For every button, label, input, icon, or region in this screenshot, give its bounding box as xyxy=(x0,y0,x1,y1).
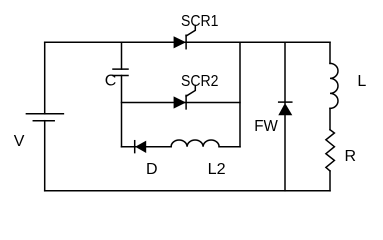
capacitor C xyxy=(113,69,128,75)
svg-text:SCR2: SCR2 xyxy=(181,73,219,90)
svg-text:R: R xyxy=(345,148,357,165)
svg-text:C: C xyxy=(105,73,117,90)
inductor L xyxy=(330,63,338,108)
SCR1 xyxy=(174,27,196,49)
diode FW xyxy=(278,102,292,115)
svg-text:V: V xyxy=(14,133,25,150)
wire right middle xyxy=(329,108,331,129)
wire inner right vertical xyxy=(239,42,241,147)
wire inner bottom xyxy=(122,146,172,148)
wire left lower xyxy=(44,121,46,191)
wire SCR2 branch xyxy=(122,102,241,104)
svg-text:SCR1: SCR1 xyxy=(181,13,219,30)
wire bottom xyxy=(45,190,330,192)
wire capacitor branch lower xyxy=(121,76,123,147)
resistor R xyxy=(326,130,335,171)
wire top xyxy=(45,41,330,43)
inductor L2 xyxy=(171,140,219,147)
wire right upper xyxy=(329,42,331,63)
SCR2 xyxy=(174,87,196,109)
wire right lower xyxy=(329,171,331,191)
wire inner bottom right xyxy=(219,146,240,148)
wire FW branch upper xyxy=(284,42,286,103)
svg-text:D: D xyxy=(146,161,158,178)
wire capacitor branch upper xyxy=(121,42,123,69)
diode D xyxy=(135,141,147,153)
svg-text:L2: L2 xyxy=(208,161,226,178)
wire left upper xyxy=(44,42,46,114)
svg-text:FW: FW xyxy=(254,118,278,135)
svg-text:L: L xyxy=(357,73,366,90)
battery V xyxy=(26,114,63,121)
wire FW branch lower xyxy=(284,115,286,191)
